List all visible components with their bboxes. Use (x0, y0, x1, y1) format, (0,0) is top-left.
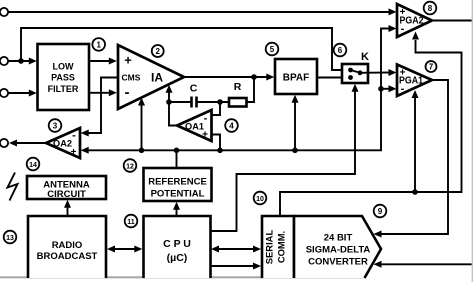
svg-text:K: K (361, 51, 369, 63)
op-amp OA1 (177, 110, 212, 141)
wire PGA1 output down to converter (379, 80, 448, 234)
circle label 5 (266, 43, 279, 56)
svg-text:3: 3 (53, 122, 58, 131)
svg-text:LOW: LOW (53, 62, 74, 72)
input terminal 2 (0, 57, 8, 65)
resistor R (229, 98, 247, 107)
circle label 6 (334, 44, 347, 57)
svg-text:(µC): (µC) (167, 252, 188, 264)
wire C left lead (169, 101, 191, 103)
svg-text:10: 10 (256, 196, 264, 203)
wire OA1 + step (212, 135, 221, 151)
svg-text:C P U: C P U (163, 238, 191, 250)
capacitor C (190, 97, 193, 108)
bottom crop line (0, 276, 363, 278)
circle label 2 (152, 45, 164, 57)
switch K box (342, 64, 368, 83)
wire CPU-serial double arrow (216, 248, 256, 250)
svg-text:COMM.: COMM. (276, 231, 287, 263)
svg-text:7: 7 (429, 63, 434, 72)
wire BPAF bottom arrow (294, 100, 296, 150)
node IA output branch (251, 74, 257, 80)
node OA1 output / C (166, 99, 172, 105)
wire terminal2 to LPF with branch (8, 60, 31, 62)
node gain feedback junction (412, 189, 418, 195)
op-amp OA2 (46, 128, 80, 158)
svg-text:REFERENCE: REFERENCE (148, 177, 207, 188)
antenna circuit box (27, 176, 106, 199)
svg-text:RADIO: RADIO (52, 240, 83, 251)
node junction at terminal2 branch (18, 58, 24, 64)
wire BPAF output to K lower input (317, 77, 341, 79)
wire bypass branch to K switch top input (21, 28, 341, 70)
switch contacts (348, 68, 353, 73)
wire R to IA output (247, 77, 255, 102)
amplifier PGA2 (397, 4, 432, 37)
switch lever (351, 70, 361, 73)
svg-text:-: - (204, 113, 208, 125)
low pass filter box (38, 44, 90, 110)
wire OA1 output up to IA bottom (169, 90, 177, 126)
wire K control from CPU (211, 89, 356, 231)
circle label 3 (49, 119, 62, 132)
svg-text:CONVERTER: CONVERTER (308, 257, 368, 268)
svg-text:CIRCUIT: CIRCUIT (47, 189, 86, 200)
svg-text:11: 11 (127, 219, 135, 226)
node PGA1 - junction (378, 86, 384, 92)
op-amp IA (118, 45, 184, 109)
input terminal 1 (0, 8, 8, 16)
wire PGA2 - input arrowhead (389, 25, 397, 32)
svg-text:POTENTIAL: POTENTIAL (151, 189, 205, 200)
input terminal 3 (0, 89, 8, 97)
svg-text:1: 1 (96, 40, 101, 49)
circle label 4 (225, 119, 238, 132)
right edge crop line (471, 0, 473, 282)
circle label 10 (254, 192, 267, 205)
node ref bus to OA1 + (217, 148, 223, 154)
wire LPF top output to IA + (89, 60, 111, 62)
svg-text:2: 2 (155, 47, 160, 56)
svg-text:CMS: CMS (122, 73, 141, 83)
wire reference bus to OA2 + (86, 29, 392, 151)
node ref bus to BPAF (292, 148, 298, 154)
wire radio to antenna arrow (67, 205, 69, 216)
svg-text:12: 12 (126, 164, 134, 171)
radio broadcast box (28, 216, 106, 278)
converter 24 bit sigma-delta (294, 216, 381, 278)
svg-text:SIGMA-DELTA: SIGMA-DELTA (306, 245, 371, 256)
svg-text:FILTER: FILTER (48, 84, 79, 94)
circle label 14 (27, 158, 40, 171)
circle label 7 (426, 61, 437, 72)
wire top line from terminal 1 to PGA2 + (8, 11, 391, 13)
wire radio-CPU double arrow (112, 248, 137, 250)
svg-text:PASS: PASS (51, 73, 75, 83)
wire reference potential riser (176, 150, 178, 168)
svg-text:R: R (234, 81, 242, 93)
wire CPU-serial lower arrow (211, 265, 257, 267)
wire OA2 output to terminal 4 (14, 142, 46, 144)
antenna symbol lightning (8, 173, 18, 201)
wire PGA1 - input (381, 88, 392, 90)
wire OA1 - step (212, 102, 221, 115)
circle label 12 (124, 159, 137, 172)
reference potential box (144, 168, 212, 201)
wire K output to PGA1 + (360, 72, 392, 74)
svg-text:OA1: OA1 (185, 122, 204, 132)
circle label 11 (125, 215, 138, 228)
svg-text:SERIAL: SERIAL (264, 230, 275, 265)
svg-text:BPAF: BPAF (283, 73, 309, 84)
svg-text:-: - (72, 130, 76, 142)
node OA1 - junction (217, 99, 223, 105)
circle label 9 (374, 205, 387, 218)
wire terminal3 to LPF (8, 92, 31, 94)
filter BPAF (275, 59, 317, 94)
svg-text:IA: IA (151, 71, 163, 85)
svg-text:+: + (124, 53, 132, 68)
wire CMS output down to OA2 inverting input (86, 78, 118, 134)
wire CPU to reference potential arrow (176, 207, 178, 216)
wire C to R (197, 101, 229, 103)
svg-text:PGA2: PGA2 (400, 15, 424, 26)
amplifier PGA1 (397, 65, 432, 97)
serial comm box (262, 216, 294, 278)
svg-text:PGA1: PGA1 (399, 76, 423, 87)
circle label 8 (424, 2, 437, 15)
CPU box (144, 216, 211, 278)
svg-text:+: + (71, 147, 77, 158)
node ref bus to reference potential (174, 148, 180, 154)
svg-text:C: C (190, 83, 198, 95)
output terminal 4 (0, 139, 8, 147)
circle label 13 (4, 231, 17, 244)
wire IA output to BPAF (184, 76, 269, 78)
svg-text:-: - (125, 84, 130, 101)
wire IA reference arrow (141, 103, 143, 150)
wire LPF bottom output to IA - (89, 92, 111, 94)
wire PGA2 output loop to converter (432, 20, 472, 22)
svg-text:BROADCAST: BROADCAST (37, 251, 98, 262)
svg-text:24 BIT: 24 BIT (324, 233, 353, 244)
node ref bus to IA ref arrow (139, 148, 145, 154)
svg-text:6: 6 (338, 46, 343, 55)
svg-text:5: 5 (270, 45, 275, 54)
wire gain feedback from serial comm to PGA1/PGA2 (280, 40, 462, 216)
svg-text:4: 4 (229, 122, 234, 131)
svg-text:14: 14 (29, 162, 37, 169)
svg-text:8: 8 (428, 4, 433, 13)
wire PGA1 gain control arrow (414, 98, 416, 192)
svg-text:13: 13 (6, 235, 14, 242)
svg-text:OA2: OA2 (53, 139, 72, 149)
circle label 1 (92, 38, 105, 51)
svg-text:9: 9 (378, 207, 383, 216)
